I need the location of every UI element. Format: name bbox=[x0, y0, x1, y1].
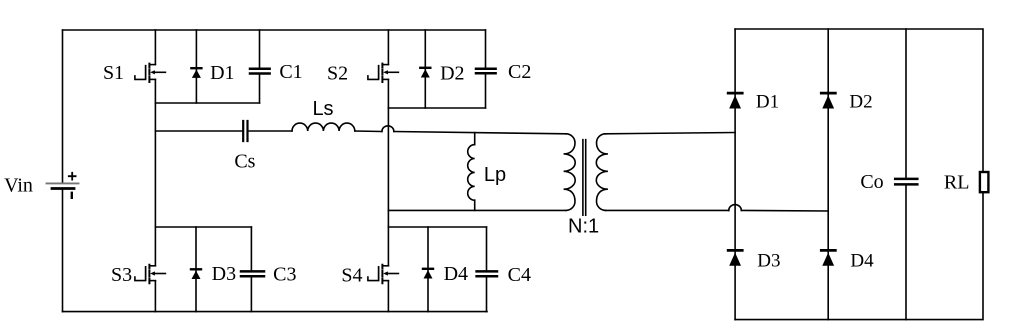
wire phase-B column upper (S2 drain) bbox=[387, 30, 389, 64]
diode D2 (rectifier) bbox=[821, 93, 835, 108]
svg-text:C4: C4 bbox=[508, 264, 531, 286]
transformer primary winding bbox=[564, 134, 576, 211]
svg-text:Co: Co bbox=[860, 171, 883, 193]
svg-text:S1: S1 bbox=[103, 62, 124, 84]
wire secondary bottom to hop bbox=[606, 209, 729, 211]
diode D4 (rectifier) bbox=[821, 250, 835, 265]
svg-text:S4: S4 bbox=[341, 265, 362, 287]
capacitor C4 bbox=[477, 227, 497, 312]
diode D3 (left bridge) bbox=[191, 227, 201, 312]
svg-text:Ls: Ls bbox=[312, 98, 333, 120]
wire phase-B column middle bbox=[387, 80, 389, 266]
wire hop to transformer primary bbox=[394, 132, 566, 134]
svg-text:D2: D2 bbox=[440, 63, 464, 85]
svg-text:D2: D2 bbox=[849, 92, 872, 113]
svg-text:S2: S2 bbox=[327, 63, 348, 85]
svg-text:C1: C1 bbox=[279, 61, 302, 83]
wire tank node A to Cs bbox=[155, 130, 242, 132]
inductor Lp lead top bbox=[474, 133, 476, 145]
wire hop over rectifier left column bbox=[729, 205, 742, 211]
transistor S3 bbox=[135, 265, 166, 283]
wire top rail left bridge bbox=[63, 29, 486, 31]
transistor S4 bbox=[368, 265, 399, 283]
diode D3 (rectifier) bbox=[728, 250, 742, 265]
wire top rail rectifier bbox=[735, 28, 982, 30]
wire phase-A column upper (S1 drain) bbox=[154, 30, 156, 64]
wire primary bottom return to phase-B column bbox=[388, 209, 566, 211]
wire secondary top to rectifier bbox=[606, 133, 736, 134]
transformer core bbox=[583, 140, 586, 216]
capacitor Cs bbox=[243, 121, 247, 141]
wire phase-B column lower (S4 source) bbox=[387, 281, 389, 312]
wire S2-cell bottom node bbox=[388, 107, 485, 109]
svg-text:D4: D4 bbox=[850, 251, 874, 272]
wire S4-cell top node bbox=[388, 226, 486, 228]
inductor Lp winding bbox=[468, 145, 475, 201]
transformer secondary winding bbox=[596, 134, 608, 211]
inductor Lp lead bottom bbox=[474, 200, 476, 210]
wire hop to D2/D4 column bbox=[741, 209, 828, 212]
svg-text:D1: D1 bbox=[756, 92, 779, 113]
resistor RL bbox=[980, 29, 989, 320]
svg-text:RL: RL bbox=[944, 172, 970, 194]
capacitor C1 bbox=[250, 30, 270, 103]
svg-text:C3: C3 bbox=[273, 264, 296, 286]
svg-text:N:1: N:1 bbox=[568, 216, 599, 238]
wire rectifier column D2/D4 bbox=[827, 29, 829, 320]
wire Ls to hop bbox=[355, 130, 382, 133]
wire S3-cell top node bbox=[155, 226, 251, 228]
svg-text:C2: C2 bbox=[508, 61, 531, 83]
wire left rail lower bbox=[62, 188, 64, 311]
svg-text:Cs: Cs bbox=[234, 151, 255, 173]
capacitor C2 bbox=[476, 30, 496, 108]
wire phase-A column lower (S3 source) bbox=[154, 281, 156, 312]
inductor Ls bbox=[292, 123, 355, 131]
wire S1-cell bottom node bbox=[155, 102, 259, 104]
transistor S2 bbox=[368, 64, 399, 82]
wire bottom rail left bridge bbox=[63, 311, 488, 313]
wire hop over phase-B column bbox=[382, 126, 394, 132]
diode D1 (rectifier) bbox=[728, 93, 742, 108]
wire left rail upper bbox=[62, 30, 64, 182]
wire Cs to Ls bbox=[249, 130, 292, 132]
battery Vin bbox=[47, 173, 79, 198]
svg-text:D3: D3 bbox=[757, 251, 780, 272]
svg-text:S3: S3 bbox=[111, 264, 132, 286]
wire rectifier column D1/D3 bbox=[734, 29, 736, 320]
wire phase-A column middle (S1 source to S3 drain) bbox=[154, 80, 156, 266]
transistor S1 bbox=[135, 64, 166, 82]
diode D2 (left bridge) bbox=[420, 30, 430, 108]
svg-text:Vin: Vin bbox=[4, 175, 33, 197]
svg-text:D1: D1 bbox=[210, 62, 234, 84]
capacitor C3 bbox=[241, 227, 264, 312]
svg-text:D3: D3 bbox=[212, 263, 236, 285]
svg-text:Lp: Lp bbox=[484, 164, 506, 186]
diode D4 (left bridge) bbox=[423, 227, 433, 312]
diode D1 (left bridge) bbox=[191, 30, 201, 103]
svg-text:D4: D4 bbox=[444, 263, 468, 285]
wire bottom rail rectifier bbox=[735, 319, 982, 321]
capacitor Co bbox=[895, 29, 917, 320]
